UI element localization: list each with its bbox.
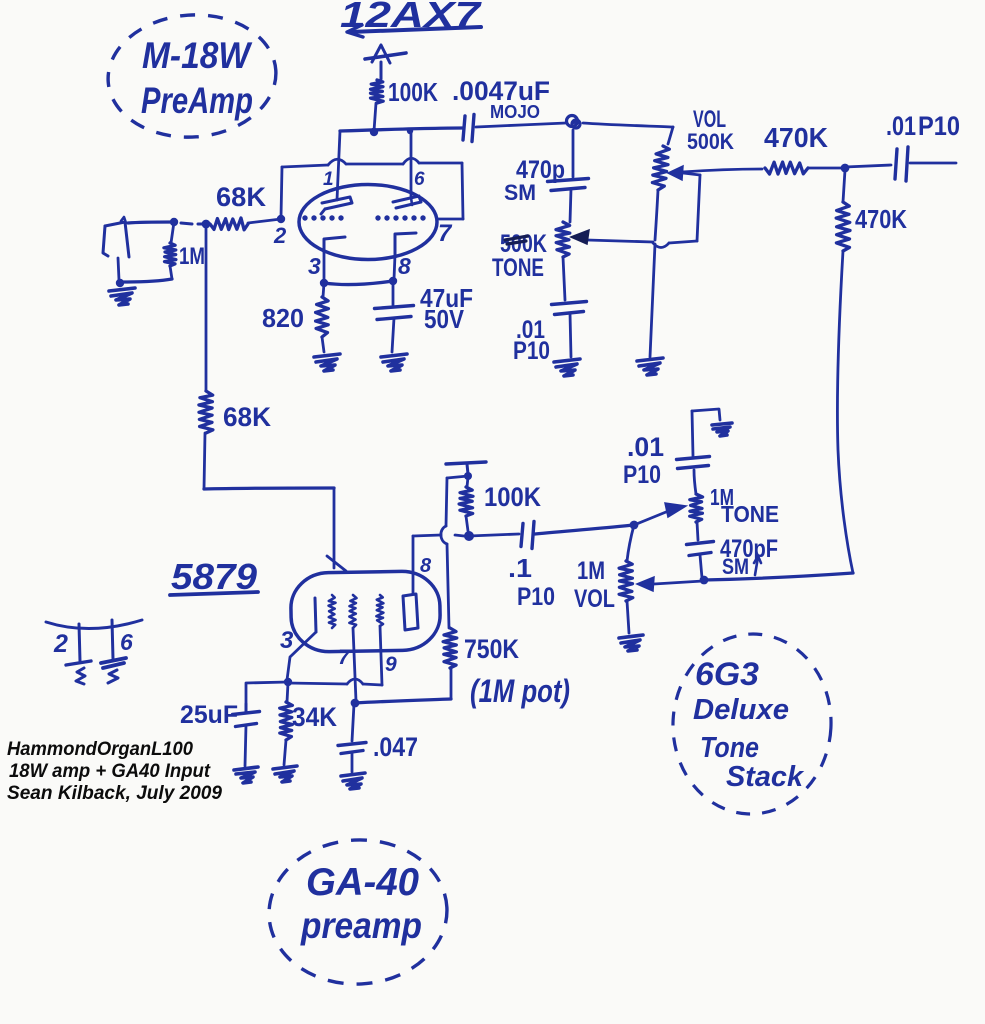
resistor 500K tone pot xyxy=(556,222,570,257)
svg-text:Deluxe: Deluxe xyxy=(693,694,789,726)
node pin 2 xyxy=(277,215,285,223)
note line 1 xyxy=(7,739,193,760)
svg-text:68K: 68K xyxy=(223,402,271,432)
wire tone node to vol pot xyxy=(627,525,634,561)
svg-text:PreAmp: PreAmp xyxy=(141,80,253,121)
label 1M xyxy=(179,243,205,270)
label 470K series xyxy=(764,122,828,153)
pin label 7 xyxy=(438,220,453,247)
svg-text:8: 8 xyxy=(398,253,411,279)
svg-text:P10: P10 xyxy=(623,461,661,489)
svg-text:1M: 1M xyxy=(577,557,605,585)
label M-18W xyxy=(142,35,253,76)
label P10 top xyxy=(623,461,661,489)
ground below 25uF xyxy=(234,767,258,783)
label SM stage2 xyxy=(722,554,749,579)
label .01 output xyxy=(886,111,916,141)
svg-text:HammondOrganL100: HammondOrganL100 xyxy=(7,739,193,760)
plate of 5879 xyxy=(403,594,418,630)
arrow 1M vol wiper xyxy=(637,577,703,591)
input jack xyxy=(103,217,129,257)
wire swirl down xyxy=(572,130,575,177)
label VOL xyxy=(693,106,726,133)
ground below 34K xyxy=(273,766,297,782)
label P10 output xyxy=(918,111,960,141)
svg-text:preamp: preamp xyxy=(300,905,422,946)
wire cathode link xyxy=(324,281,393,284)
wire jack sleeve xyxy=(118,258,119,280)
capacitor .0047uF MOJO xyxy=(463,115,566,142)
power arrow B+ xyxy=(365,45,406,79)
svg-text:P10: P10 xyxy=(918,111,960,141)
svg-text:Tone: Tone xyxy=(700,732,759,764)
wire pin9 down xyxy=(380,626,382,685)
pin label 1 xyxy=(323,169,334,190)
pin 1 slash 5879 xyxy=(327,556,346,571)
wire 68K to pin2 xyxy=(248,219,281,223)
label 50V xyxy=(424,304,465,334)
wire pin3 down xyxy=(287,632,316,680)
svg-text:750K: 750K xyxy=(464,634,519,664)
plate riser pin 6 xyxy=(410,133,413,196)
heater arc xyxy=(46,620,142,629)
underline arrow for 12AX7 xyxy=(347,25,481,37)
svg-text:VOL: VOL xyxy=(574,585,615,613)
svg-text:3: 3 xyxy=(280,627,294,654)
ground below 47uF xyxy=(381,354,407,371)
svg-text:(1M pot): (1M pot) xyxy=(470,673,570,709)
wire tone pot down xyxy=(563,257,565,300)
pin label 2 xyxy=(273,223,287,248)
cathode triode 1 xyxy=(324,237,345,280)
svg-text:6G3: 6G3 xyxy=(695,656,759,692)
pin label 6 heater xyxy=(120,629,133,655)
wire jack to node xyxy=(128,222,174,223)
svg-text:.01: .01 xyxy=(886,111,916,141)
wire tone stack rail xyxy=(704,573,853,580)
node cathode junction 5879 xyxy=(284,678,292,686)
svg-text:470K: 470K xyxy=(764,122,828,153)
label 470p xyxy=(516,156,565,184)
tube label 5879 xyxy=(170,556,258,597)
label P10 tone xyxy=(513,337,550,365)
ground heater pin 6 xyxy=(101,658,126,683)
label 100K xyxy=(388,77,438,107)
svg-text:SM: SM xyxy=(504,180,536,205)
svg-text:P10: P10 xyxy=(517,583,555,611)
mark up arrow xyxy=(754,556,761,575)
capacitor .047 xyxy=(338,704,366,772)
plate riser pin 1 xyxy=(337,131,340,200)
svg-text:TONE: TONE xyxy=(721,501,779,527)
ground below 500K vol xyxy=(637,358,663,375)
label .01 tone xyxy=(516,316,545,344)
capacitor 470pF SM xyxy=(687,522,714,578)
label 25uF xyxy=(180,701,238,729)
label 34K xyxy=(292,702,337,732)
svg-text:500K: 500K xyxy=(687,129,734,154)
resistor 470K shunt xyxy=(836,170,850,251)
svg-text:100K: 100K xyxy=(484,482,541,512)
node plate junction 5879 xyxy=(464,531,474,541)
node 470pF junction xyxy=(700,576,709,585)
capacitor .1 P10 xyxy=(521,522,634,549)
pin label 7 5879 xyxy=(338,646,351,669)
resistor 750K xyxy=(443,628,457,698)
svg-text:MOJO: MOJO xyxy=(490,102,540,122)
label VOL stage2 xyxy=(574,585,615,613)
node supply xyxy=(464,472,472,480)
svg-text:820: 820 xyxy=(262,303,304,333)
capacitor 25uF xyxy=(233,704,260,766)
ground above .01 xyxy=(712,423,732,436)
svg-text:34K: 34K xyxy=(292,702,337,732)
svg-text:1: 1 xyxy=(323,169,334,190)
resistor 68K stage2 xyxy=(199,391,213,433)
resistor 470K series xyxy=(682,162,843,174)
svg-text:TONE: TONE xyxy=(492,254,544,282)
arrow to 1M tone xyxy=(634,503,686,525)
svg-text:2: 2 xyxy=(53,630,68,658)
svg-text:6: 6 xyxy=(414,169,425,190)
capacitor .01 P10 top xyxy=(677,409,721,469)
dashed bubble M-18W PreAmp xyxy=(104,9,280,142)
label TONE xyxy=(492,254,544,282)
plate of triode 1 xyxy=(321,197,352,214)
wire 750K drop with hop xyxy=(441,476,468,628)
label MOJO xyxy=(490,102,540,122)
tube 12AX7 envelope xyxy=(299,185,437,260)
wire vol wiper loop xyxy=(587,175,700,248)
resistor 34K xyxy=(280,683,293,765)
ground below 1M vol xyxy=(619,635,643,651)
plate of triode 2 xyxy=(393,196,421,208)
node input junction xyxy=(170,218,178,226)
wire long right vertical xyxy=(837,251,853,573)
svg-text:GA-40: GA-40 xyxy=(306,861,419,904)
svg-text:.01: .01 xyxy=(627,432,664,462)
label TONE stage2 xyxy=(721,501,779,527)
label .1 xyxy=(508,553,532,583)
ground heater pin 2 xyxy=(66,661,91,684)
pin label 8 xyxy=(398,253,411,279)
arrow 500K vol wiper xyxy=(668,166,700,180)
label SM xyxy=(504,180,536,205)
svg-text:.1: .1 xyxy=(508,553,532,583)
resistor 1M input xyxy=(122,222,176,282)
svg-text:P10: P10 xyxy=(513,337,550,365)
label 6G3 xyxy=(695,656,759,692)
grid 1 of 5879 xyxy=(329,595,336,628)
node bottom rail junction xyxy=(351,699,360,708)
label 1M tone xyxy=(710,484,734,510)
svg-text:7: 7 xyxy=(338,646,351,669)
wire plate rail xyxy=(413,534,519,536)
grid dotted line xyxy=(302,215,425,220)
resistor 1M vol pot xyxy=(619,561,633,601)
label Tone xyxy=(700,732,759,764)
label PreAmp xyxy=(141,80,253,121)
node tone input junction xyxy=(630,521,639,530)
wire 68K2 elbow xyxy=(204,433,334,568)
wire vol pot to ground xyxy=(627,601,629,633)
resistor 1M tone pot xyxy=(690,494,703,522)
tube label 12AX7 xyxy=(340,0,483,35)
label .047 xyxy=(373,732,418,762)
node plate-right junction xyxy=(407,128,413,134)
node output junction xyxy=(841,164,850,173)
pin label 3 5879 xyxy=(280,627,294,654)
label 1M pot xyxy=(470,673,570,709)
node jack ground xyxy=(116,279,124,287)
grid 2 of 5879 xyxy=(349,595,356,628)
heater pin 2 lead xyxy=(79,624,80,661)
wire tone pot to .01 xyxy=(694,470,696,494)
svg-text:18W amp + GA40 Input: 18W amp + GA40 Input xyxy=(9,761,211,782)
label Stack xyxy=(726,761,805,793)
ground below .047 xyxy=(341,773,365,789)
supply bar xyxy=(446,462,486,474)
svg-text:25uF: 25uF xyxy=(180,701,238,729)
svg-text:68K: 68K xyxy=(216,182,267,212)
wire to 25uF xyxy=(246,682,288,711)
dashed bubble 6G3 xyxy=(668,630,835,818)
grid 3 of 5879 xyxy=(376,595,383,626)
label preamp xyxy=(300,905,422,946)
svg-text:6: 6 xyxy=(120,629,133,655)
resistor 100K (12AX7 plate load) xyxy=(371,80,384,131)
resistor 500K vol pot xyxy=(652,146,669,190)
label 100K stage2 xyxy=(484,482,541,512)
label 68K stage2 xyxy=(223,402,271,432)
cathode triode 2 xyxy=(394,233,416,279)
pin label 2 heater xyxy=(53,630,68,658)
svg-text:2: 2 xyxy=(273,223,287,248)
label 1M vol xyxy=(577,557,605,585)
ground input jack xyxy=(109,288,135,305)
label .0047uF xyxy=(452,76,550,106)
label 47uF xyxy=(420,283,473,313)
label GA-40 xyxy=(306,861,419,904)
pin label 8 5879 xyxy=(420,555,432,577)
capacitor .01 P10 tone xyxy=(552,302,587,358)
wire plate bus xyxy=(340,128,462,131)
capacitor .01 P10 output xyxy=(845,147,956,181)
arrow 500K tone wiper xyxy=(571,230,589,244)
wire vol pot bottom xyxy=(650,190,658,357)
wire bottom rail xyxy=(355,699,451,703)
resistor 100K stage2 xyxy=(459,477,473,531)
svg-text:8: 8 xyxy=(420,555,432,577)
grid rail rectangle xyxy=(281,158,463,219)
svg-text:Stack: Stack xyxy=(726,761,805,793)
pin label 9 5879 xyxy=(385,653,397,676)
label 750K xyxy=(464,634,519,664)
pin label 6 xyxy=(414,169,425,190)
node pin 3 xyxy=(320,279,328,287)
wire swirl to vol pot xyxy=(583,123,673,144)
label 500K tone xyxy=(500,230,547,258)
svg-text:Sean Kilback, July 2009: Sean Kilback, July 2009 xyxy=(7,783,222,804)
wire dashes xyxy=(181,223,209,224)
capacitor 470p SM xyxy=(548,179,589,223)
svg-text:470K: 470K xyxy=(855,204,907,234)
svg-text:7: 7 xyxy=(438,220,453,247)
svg-text:100K: 100K xyxy=(388,77,438,107)
note line 2 xyxy=(9,761,211,782)
tube 5879 envelope xyxy=(290,571,440,653)
heater pin 6 lead xyxy=(112,620,113,659)
svg-text:.047: .047 xyxy=(373,732,418,762)
resistor 68K input xyxy=(210,218,248,230)
ground below .01 tone xyxy=(554,359,580,376)
svg-text:3: 3 xyxy=(308,253,321,279)
capacitor 47uF 50V xyxy=(375,281,414,352)
label P10 stage2 xyxy=(517,583,555,611)
pin label 3 xyxy=(308,253,321,279)
resistor 820 xyxy=(316,283,329,352)
svg-text:SM: SM xyxy=(722,554,749,579)
svg-text:9: 9 xyxy=(385,653,397,676)
wire cathode tie xyxy=(287,679,382,685)
cathode line 5879 xyxy=(315,598,316,632)
node pin 8 xyxy=(389,277,397,285)
note line 3 xyxy=(7,783,222,804)
ground below 820 xyxy=(314,354,340,371)
label 68K xyxy=(216,182,267,212)
label 500K vol xyxy=(687,129,734,154)
label Deluxe xyxy=(693,694,789,726)
node swirl junction xyxy=(567,116,581,129)
wire pin7 down xyxy=(353,628,356,701)
node plate-left junction xyxy=(370,128,378,136)
svg-text:M-18W: M-18W xyxy=(142,35,253,76)
label 470pF xyxy=(720,535,778,563)
node grid stopper junction xyxy=(202,220,211,229)
svg-text:50V: 50V xyxy=(424,304,465,334)
dashed bubble GA-40 xyxy=(265,835,450,988)
label .01 top xyxy=(627,432,664,462)
plate riser pin 8 5879 xyxy=(412,536,415,594)
svg-text:1M: 1M xyxy=(179,243,205,270)
wire to second stage xyxy=(205,225,208,391)
label 820 xyxy=(262,303,304,333)
label 470K shunt xyxy=(855,204,907,234)
